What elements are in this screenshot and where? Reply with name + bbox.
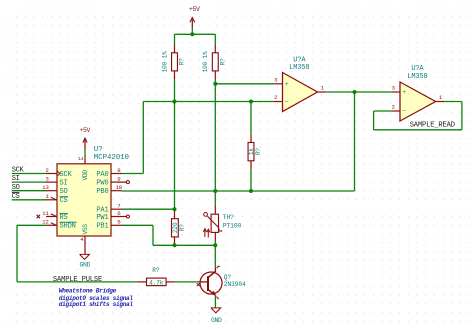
svg-text:4: 4: [80, 237, 83, 243]
svg-text:−: −: [285, 99, 289, 106]
svg-text:PT100: PT100: [223, 222, 242, 229]
svg-text:MCP42010: MCP42010: [94, 154, 129, 162]
svg-text:2: 2: [392, 104, 395, 111]
svg-text:R?: R?: [255, 148, 262, 156]
svg-text:2N3904: 2N3904: [224, 281, 246, 288]
svg-text:PW1: PW1: [96, 214, 108, 222]
svg-text:Q?: Q?: [224, 274, 232, 281]
svg-text:13: 13: [42, 184, 49, 191]
svg-text:+5V: +5V: [80, 127, 91, 134]
svg-text:PB0: PB0: [96, 188, 108, 196]
svg-text:SO: SO: [60, 188, 68, 196]
svg-text:R?: R?: [179, 58, 186, 66]
svg-text:R?: R?: [152, 267, 160, 274]
svg-text:PA0: PA0: [96, 171, 108, 179]
svg-text:LM358: LM358: [407, 73, 427, 81]
svg-text:PW0: PW0: [96, 179, 108, 187]
svg-text:TH?: TH?: [223, 214, 234, 221]
svg-text:−: −: [402, 108, 406, 115]
svg-text:2: 2: [274, 94, 277, 101]
svg-text:R?: R?: [179, 224, 186, 232]
svg-text:100 1%: 100 1%: [202, 51, 209, 73]
svg-text:VSS: VSS: [82, 224, 89, 235]
svg-text:SO: SO: [12, 184, 20, 192]
svg-text:3: 3: [274, 77, 277, 84]
svg-text:SHDN: SHDN: [60, 223, 76, 231]
svg-text:14: 14: [78, 156, 84, 162]
svg-text:RS: RS: [60, 214, 68, 222]
svg-text:R?: R?: [219, 58, 226, 66]
svg-text:+: +: [285, 81, 289, 88]
svg-text:VDD: VDD: [82, 170, 89, 181]
svg-text:100 1%: 100 1%: [161, 51, 168, 73]
svg-text:SAMPLE_READ: SAMPLE_READ: [410, 121, 455, 129]
svg-text:SCK: SCK: [12, 167, 25, 175]
svg-text:+5V: +5V: [189, 6, 200, 13]
svg-text:220: 220: [172, 222, 179, 233]
svg-text:12: 12: [42, 219, 49, 226]
svg-text:3: 3: [392, 85, 395, 92]
svg-text:4.7k: 4.7k: [149, 279, 164, 286]
svg-text:LM358: LM358: [289, 64, 309, 72]
svg-text:Wheatstone Bridge: Wheatstone Bridge: [59, 288, 117, 295]
svg-text:SI: SI: [60, 179, 68, 187]
svg-text:GND: GND: [79, 262, 90, 269]
svg-text:SI: SI: [12, 175, 20, 183]
svg-text:SCK: SCK: [60, 171, 73, 179]
svg-text:+: +: [402, 89, 406, 96]
svg-text:SAMPLE_PULSE: SAMPLE_PULSE: [53, 276, 102, 284]
svg-text:1k: 1k: [248, 148, 255, 156]
svg-text:digipot1 shifts signal: digipot1 shifts signal: [59, 301, 134, 308]
svg-text:10: 10: [116, 184, 123, 191]
svg-text:GND: GND: [211, 317, 222, 324]
svg-text:PB1: PB1: [96, 223, 108, 231]
svg-text:11: 11: [42, 210, 49, 217]
svg-text:CS: CS: [60, 197, 68, 205]
svg-text:CS: CS: [12, 193, 20, 201]
